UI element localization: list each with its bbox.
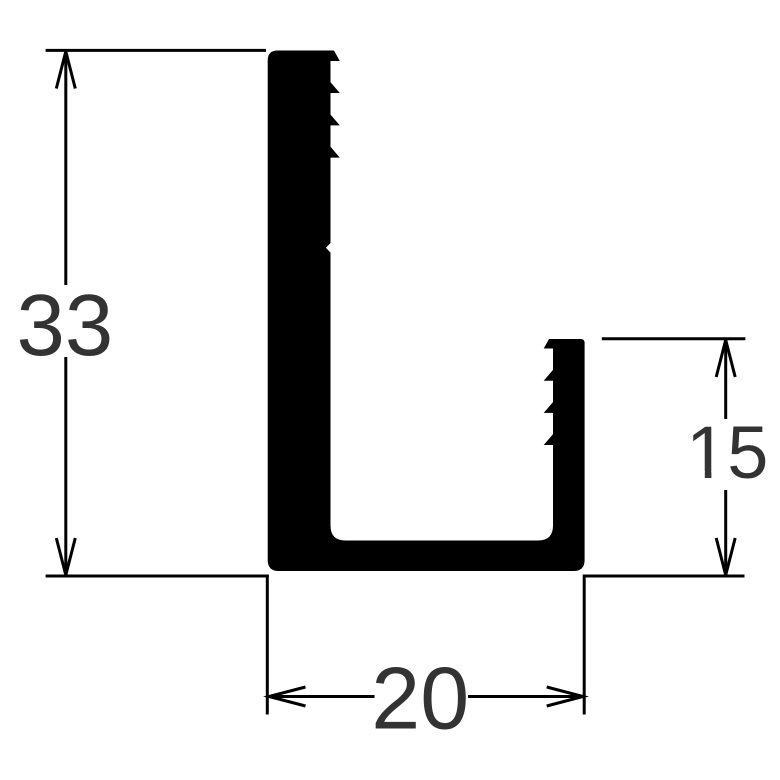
dimension line 20 right segment bbox=[468, 695, 584, 698]
arrow 20 right bbox=[547, 687, 583, 706]
extension line top-right (top of 15) bbox=[602, 337, 746, 340]
svg-text:33: 33 bbox=[17, 277, 114, 374]
dimension line 33 upper segment bbox=[64, 50, 67, 285]
svg-text:15: 15 bbox=[686, 411, 768, 494]
extension line top-left (top of 33) bbox=[46, 49, 266, 52]
extension line bottom-right horizontal bbox=[583, 575, 745, 578]
dimension line 15 upper segment bbox=[724, 339, 727, 419]
arrow 20 left bbox=[269, 687, 306, 706]
arrow 15 top bbox=[716, 340, 735, 377]
arrow 33 top bbox=[56, 52, 75, 89]
dimension line 33 lower segment bbox=[64, 357, 67, 576]
svg-text:20: 20 bbox=[371, 649, 469, 748]
dimension line 20 left segment bbox=[268, 695, 375, 698]
arrow 33 bottom bbox=[56, 538, 75, 575]
dimension line 15 lower segment bbox=[724, 490, 727, 576]
arrow 15 bottom bbox=[716, 538, 735, 575]
extension line bottom-left horizontal bbox=[46, 575, 269, 578]
profile body (J-channel cross-section with serrated legs and V-notch) bbox=[268, 51, 585, 572]
extension line bottom-left vertical drop bbox=[266, 575, 269, 715]
extension line bottom-right vertical drop bbox=[583, 575, 586, 715]
label 15 bbox=[686, 411, 768, 494]
